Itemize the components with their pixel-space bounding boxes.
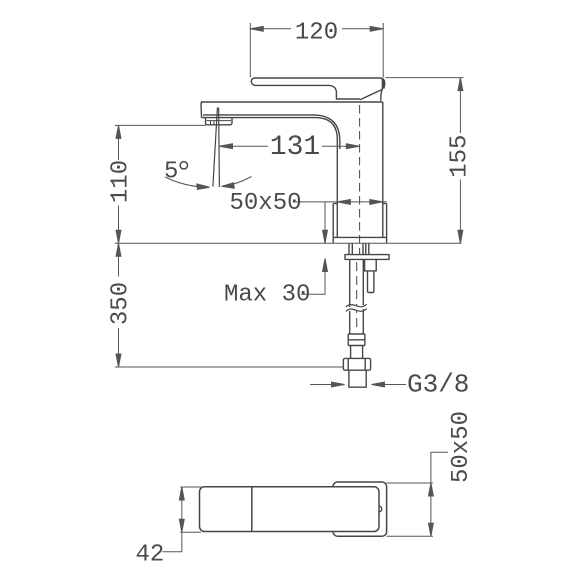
svg-text:350: 350 <box>108 282 135 325</box>
flange joint line <box>333 236 386 238</box>
5 degree angle arcs <box>165 177 252 190</box>
leader to counter (from 50x50 line) <box>323 202 328 243</box>
Max 30 leader <box>301 259 327 295</box>
dimension 350 <box>116 243 121 367</box>
body right edge <box>382 102 384 237</box>
dimension 110 / 350 extension lines <box>115 124 206 126</box>
spout underside outer line with curve into body left edge <box>202 118 338 238</box>
hex nut <box>343 358 370 370</box>
svg-text:120: 120 <box>295 19 338 46</box>
svg-text:155: 155 <box>447 135 474 178</box>
svg-text:G3/8: G3/8 <box>407 370 469 400</box>
svg-text:131: 131 <box>270 132 320 163</box>
under-counter shank pipes <box>349 243 369 254</box>
body dashed centerline <box>359 105 361 254</box>
counter/deck line <box>115 242 462 244</box>
mounting stud <box>365 259 377 292</box>
handle lever outline <box>251 78 384 101</box>
handle rear diagonal edge <box>360 90 382 100</box>
water stream lines <box>213 108 220 188</box>
pipe break symbol <box>346 304 367 312</box>
spout/lever footprint <box>200 487 382 532</box>
dimension 50x50 (bottom view) <box>387 452 448 536</box>
connector end pipe G3/8 <box>349 370 366 387</box>
handle rear rounded bulge <box>383 79 385 89</box>
svg-text:110: 110 <box>108 160 135 203</box>
dimension 50x50 (side view) <box>296 199 387 204</box>
spout underside inner thin line <box>203 115 340 149</box>
svg-text:50x50: 50x50 <box>230 190 302 217</box>
dimension 110 <box>116 125 121 243</box>
spout left edge <box>201 102 203 118</box>
svg-text:Max 30: Max 30 <box>224 281 310 308</box>
spout / body top line <box>201 101 383 103</box>
dimension 155 <box>386 78 464 244</box>
base shell (wider lower body) <box>333 204 386 244</box>
svg-text:42: 42 <box>136 542 165 569</box>
dimension 42 <box>163 487 202 552</box>
hose tube <box>351 346 363 359</box>
aerator housing <box>206 118 233 125</box>
threaded rod <box>350 259 364 334</box>
G3/8 leader arrows <box>310 382 406 387</box>
dimension 131 <box>220 144 360 149</box>
mounting washer plate <box>345 255 389 260</box>
svg-text:5: 5 <box>164 159 178 186</box>
dimension 120 <box>250 23 383 78</box>
hose coupling <box>348 334 365 346</box>
svg-text:50x50: 50x50 <box>448 411 475 483</box>
body square footprint <box>333 482 387 536</box>
